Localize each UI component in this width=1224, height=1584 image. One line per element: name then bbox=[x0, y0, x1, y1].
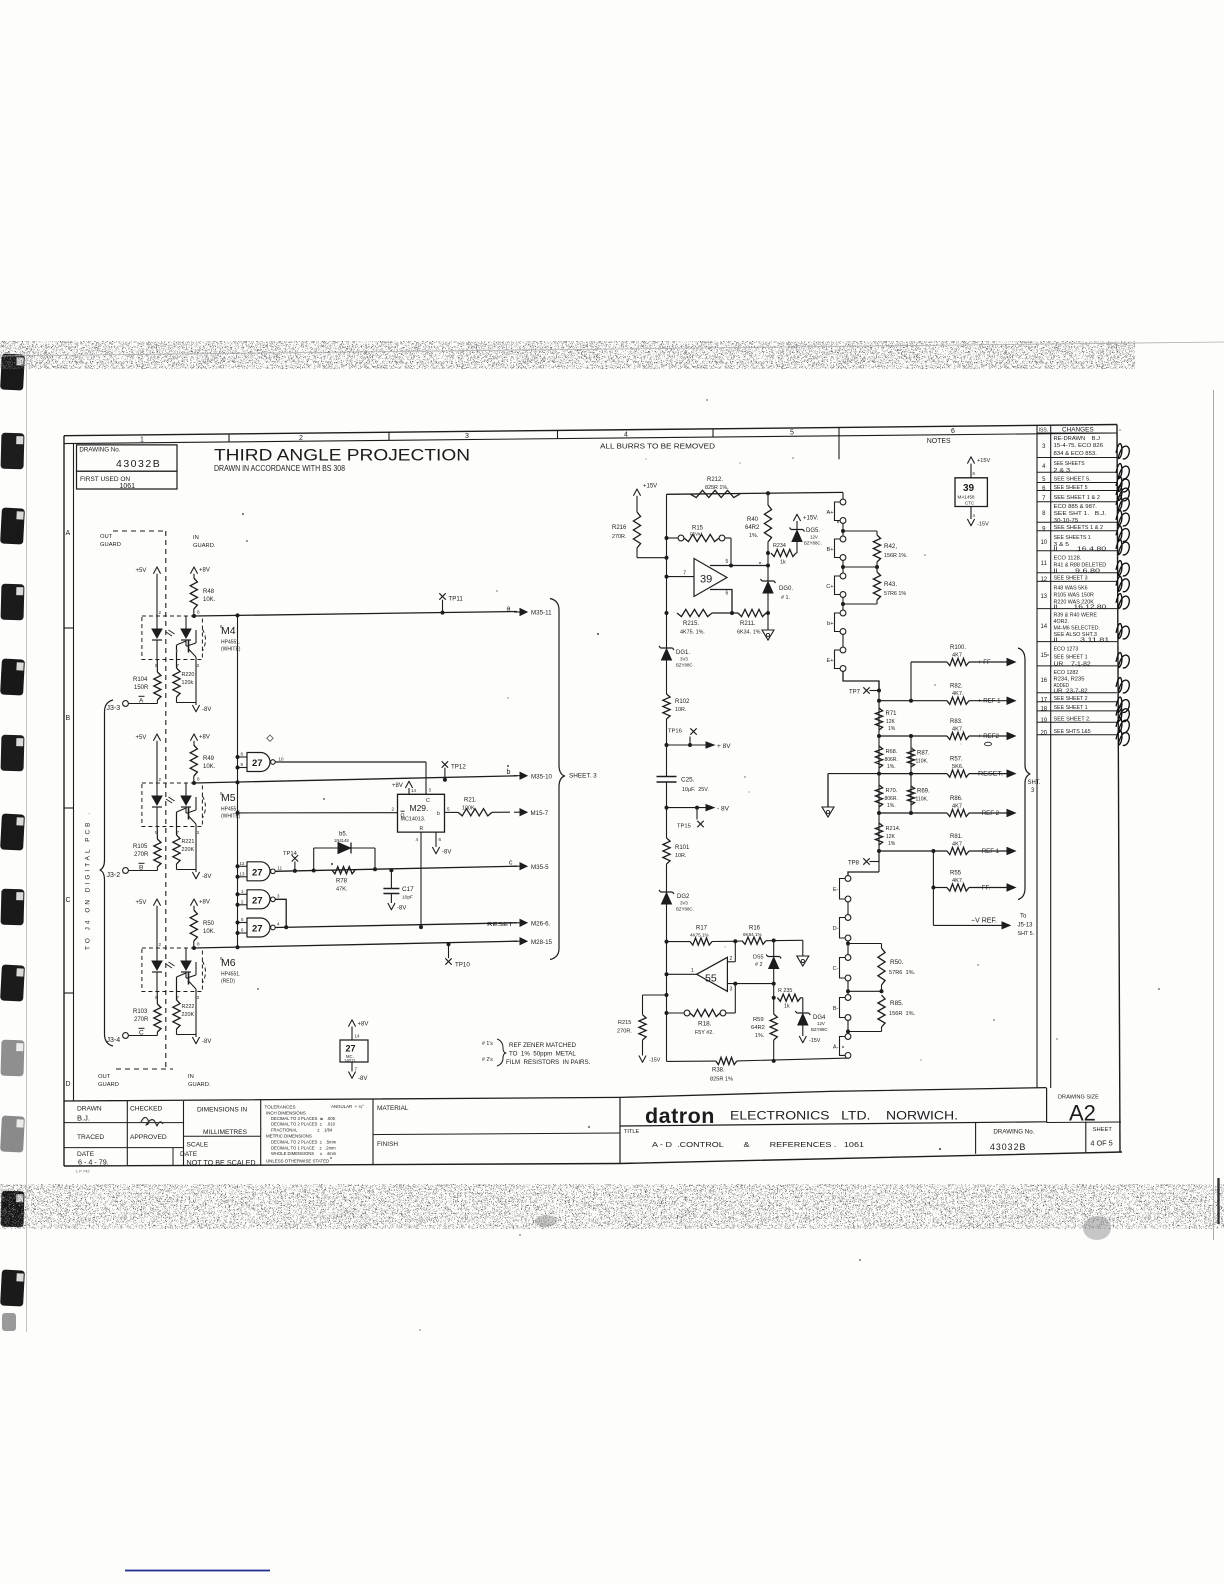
svg-text:+15V: +15V bbox=[977, 458, 990, 464]
svg-text:11: 11 bbox=[1041, 561, 1048, 567]
svg-text:SHEET. 3: SHEET. 3 bbox=[569, 773, 597, 780]
resistor R50 57R6 1% bbox=[848, 943, 882, 945]
link A+ bbox=[842, 492, 844, 499]
resistor R87 110K bbox=[907, 748, 914, 767]
resistor R70 806R 1% bbox=[875, 785, 882, 807]
M25 pin 4 reset vertical bbox=[420, 832, 422, 927]
svg-text:R68.: R68. bbox=[886, 749, 898, 755]
op-amp U39a bbox=[694, 559, 727, 597]
svg-text:5: 5 bbox=[447, 807, 450, 812]
resistor R234 1k bbox=[771, 549, 796, 556]
svg-text:SCALE: SCALE bbox=[187, 1142, 209, 1149]
svg-text:R104: R104 bbox=[133, 677, 148, 683]
svg-text:REF ZENER MATCHED: REF ZENER MATCHED bbox=[509, 1042, 576, 1049]
-8V supply M5 bbox=[176, 864, 178, 870]
phototransistor M5 bbox=[188, 808, 190, 820]
svg-text:SEE SHEET 1: SEE SHEET 1 bbox=[1054, 705, 1088, 711]
svg-text:ECO 885 & 987.: ECO 885 & 987. bbox=[1054, 504, 1097, 510]
svg-text:A-: A- bbox=[833, 1045, 839, 1051]
svg-text:6 - 4 - 79.: 6 - 4 - 79. bbox=[78, 1158, 109, 1167]
svg-text:FIRST USED ON: FIRST USED ON bbox=[80, 476, 130, 483]
bottom scan speckle band bbox=[0, 1184, 1224, 1229]
svg-text:5: 5 bbox=[726, 559, 729, 565]
svg-text:c: c bbox=[509, 860, 513, 867]
svg-text:SEE SHEET 1: SEE SHEET 1 bbox=[1054, 655, 1088, 661]
svg-text:7: 7 bbox=[683, 571, 686, 577]
svg-text:E+: E+ bbox=[827, 658, 834, 664]
wire LED cathode to R104 bbox=[156, 660, 158, 673]
svg-text:D-: D- bbox=[833, 926, 839, 932]
svg-text:14011.: 14011. bbox=[344, 1058, 357, 1063]
+5V supply M4 bbox=[153, 567, 160, 574]
reset row ground leg bbox=[827, 774, 829, 807]
svg-text:57R6 1%.: 57R6 1%. bbox=[889, 970, 916, 976]
link E- bbox=[845, 876, 851, 882]
svg-text:GUARD.: GUARD. bbox=[193, 543, 216, 549]
svg-text:F5Y #2.: F5Y #2. bbox=[695, 1030, 714, 1036]
svg-text:6: 6 bbox=[951, 428, 955, 435]
resistor R212 825R 1% bbox=[690, 490, 740, 497]
svg-text:- REF 2: - REF 2 bbox=[978, 810, 1000, 817]
svg-text:R86.: R86. bbox=[950, 796, 963, 802]
link A- bbox=[845, 1034, 851, 1040]
svg-text:DG5.: DG5. bbox=[806, 528, 820, 534]
svg-text:ELECTRONICS LTD. NORWICH.: ELECTRONICS LTD. NORWICH. bbox=[730, 1109, 958, 1123]
svg-text:b+: b+ bbox=[827, 621, 833, 627]
resistor R104 150R bbox=[154, 672, 161, 700]
svg-text:R102: R102 bbox=[675, 699, 690, 705]
svg-text:B.J.: B.J. bbox=[77, 1114, 90, 1123]
resistor R69 110K bbox=[907, 786, 914, 805]
svg-text:3: 3 bbox=[429, 788, 432, 793]
svg-text:M35-10: M35-10 bbox=[531, 773, 553, 780]
output to M28-15 bbox=[514, 940, 521, 942]
top scan speckle band bbox=[0, 341, 1135, 369]
svg-text:834 & ECO 853.: 834 & ECO 853. bbox=[1054, 451, 1097, 457]
LED inside M4 bbox=[156, 616, 158, 629]
spare gate -8V bbox=[351, 1062, 353, 1072]
svg-text:# 1.: # 1. bbox=[781, 595, 790, 601]
svg-text:220K: 220K bbox=[182, 847, 195, 853]
svg-text:J3-3: J3-3 bbox=[107, 705, 121, 712]
svg-text:DRAWING No.: DRAWING No. bbox=[993, 1129, 1034, 1136]
link B- bbox=[845, 995, 851, 1001]
svg-text:2: 2 bbox=[159, 942, 162, 947]
wire from M6 collector bbox=[192, 946, 196, 950]
svg-text:ll 16.4.80: ll 16.4.80 bbox=[1054, 547, 1107, 553]
zener DG5 12V bbox=[790, 528, 805, 532]
light arrows M5 bbox=[166, 797, 175, 803]
svg-text:BZY88C.: BZY88C. bbox=[676, 907, 694, 912]
svg-text:TP16: TP16 bbox=[668, 729, 682, 735]
svg-text:RESET: RESET bbox=[487, 922, 514, 928]
svg-text:−V REF.: −V REF. bbox=[971, 918, 997, 925]
wire a from M4 collector bbox=[192, 614, 196, 618]
svg-text:10K.: 10K. bbox=[203, 929, 216, 935]
binding holes left edge bbox=[0, 353, 25, 390]
svg-text:16: 16 bbox=[1040, 678, 1047, 684]
svg-text:12K: 12K bbox=[886, 719, 896, 725]
svg-text:4K7: 4K7 bbox=[952, 652, 962, 658]
svg-text:+ REF 1: + REF 1 bbox=[978, 698, 1001, 705]
svg-text:SEE SHEETS 1: SEE SHEETS 1 bbox=[1054, 535, 1091, 541]
op-amp pin6 wire bbox=[710, 590, 732, 614]
svg-text:TP7: TP7 bbox=[849, 690, 861, 696]
svg-text:+5V: +5V bbox=[136, 900, 147, 906]
datron row bottom line bbox=[620, 1122, 1046, 1126]
svg-text:47K.: 47K. bbox=[336, 887, 348, 893]
test point TP10 bbox=[445, 958, 451, 964]
svg-text:20: 20 bbox=[1040, 731, 1047, 737]
svg-text:39: 39 bbox=[700, 574, 712, 586]
svg-text:R103: R103 bbox=[133, 1009, 148, 1015]
+5V supply M5 bbox=[153, 734, 160, 741]
svg-text:R215.: R215. bbox=[683, 621, 699, 627]
op-amp U55 (mirrored) bbox=[697, 957, 728, 991]
svg-text:8: 8 bbox=[197, 610, 200, 615]
photodiode inside M6 bbox=[185, 948, 187, 961]
svg-text:M5: M5 bbox=[221, 792, 236, 804]
svg-text:R234: R234 bbox=[773, 543, 786, 549]
svg-text:R42,: R42, bbox=[884, 543, 897, 550]
svg-text:b: b bbox=[507, 769, 511, 776]
svg-text:10R.: 10R. bbox=[675, 707, 686, 713]
svg-text:SEE SHEET 2: SEE SHEET 2 bbox=[1054, 696, 1088, 702]
top border column ticks bbox=[228, 434, 230, 442]
svg-text:4K7: 4K7 bbox=[952, 803, 962, 809]
svg-text:SEE SHTS 1&5: SEE SHTS 1&5 bbox=[1054, 729, 1091, 735]
wire reset row bbox=[275, 923, 517, 928]
svg-text:R234, R235: R234, R235 bbox=[1054, 677, 1085, 683]
svg-text:DECIMAL TO 2 PLACES ± .5mm: DECIMAL TO 2 PLACES ± .5mm bbox=[271, 1140, 337, 1145]
bypass diode b5 1N4148 bbox=[313, 848, 315, 871]
svg-text:2: 2 bbox=[392, 807, 395, 812]
svg-text:R211.: R211. bbox=[740, 621, 756, 627]
wire LED cathode to R105 bbox=[156, 827, 158, 840]
LED inside M5 bbox=[156, 783, 158, 796]
svg-text:ll 3.11.81: ll 3.11.81 bbox=[1054, 637, 1110, 643]
svg-text:-8V: -8V bbox=[202, 707, 211, 713]
resistor R17 4K75 1% bbox=[667, 941, 691, 943]
flip-flop M29 MC14013 bbox=[398, 794, 445, 832]
svg-text:6: 6 bbox=[439, 837, 442, 842]
svg-text:C+: C+ bbox=[826, 584, 833, 590]
resistor R55 4K7. output - FF. bbox=[933, 887, 947, 889]
LED inside M6 bbox=[156, 948, 158, 961]
svg-text:10pF: 10pF bbox=[402, 895, 413, 901]
ground right of R16 bbox=[802, 940, 804, 956]
svg-text:CTC: CTC bbox=[965, 501, 974, 506]
secondary divider R87/R69 bbox=[910, 736, 912, 813]
svg-text:11: 11 bbox=[278, 866, 283, 871]
svg-text:BZY88C: BZY88C bbox=[811, 1027, 828, 1032]
test point TP8 bbox=[878, 851, 880, 872]
svg-text:R81.: R81. bbox=[950, 834, 963, 840]
wire b from M5 collector bbox=[192, 781, 196, 785]
U55 output pin1 bbox=[667, 973, 697, 975]
J4 connector brace bbox=[100, 700, 113, 1046]
svg-text:DS5: DS5 bbox=[753, 955, 764, 961]
svg-text:M35-11: M35-11 bbox=[531, 610, 552, 617]
left page edge shadow bbox=[26, 352, 28, 1332]
NAND gate G2 bbox=[247, 862, 270, 881]
wire R215 to R211 bbox=[712, 612, 738, 614]
svg-text:+5V: +5V bbox=[136, 735, 147, 741]
op-amp package 39 MA1458 bbox=[955, 478, 987, 507]
svg-text:3: 3 bbox=[197, 830, 200, 835]
blue pen line bottom bbox=[125, 1570, 270, 1572]
svg-text:ECO 1273: ECO 1273 bbox=[1054, 647, 1079, 653]
svg-text:3: 3 bbox=[730, 987, 733, 993]
svg-text:# 1's: # 1's bbox=[482, 1041, 493, 1047]
svg-text:12V: 12V bbox=[810, 535, 818, 540]
svg-text:C: C bbox=[426, 798, 430, 804]
svg-text:-15V: -15V bbox=[809, 1038, 821, 1044]
resistor R78 47K bbox=[332, 867, 355, 874]
resistor R15 select-on-test bbox=[667, 537, 679, 539]
svg-text:110K.: 110K. bbox=[916, 797, 929, 803]
resistor R101 10R bbox=[663, 838, 670, 864]
svg-text:ANGULAR + ¼°: ANGULAR + ¼° bbox=[331, 1104, 364, 1109]
svg-text:14: 14 bbox=[1040, 624, 1047, 630]
svg-text:SEE SHEETS: SEE SHEETS bbox=[1054, 461, 1086, 467]
-8V supply M6 bbox=[176, 1029, 178, 1035]
svg-text:R59: R59 bbox=[753, 1017, 764, 1023]
svg-text:- REF 1: - REF 1 bbox=[978, 848, 1000, 855]
svg-text:A2: A2 bbox=[1069, 1101, 1096, 1126]
resistor R211 6K34 1% bbox=[738, 609, 766, 616]
svg-text:R101: R101 bbox=[675, 845, 690, 851]
svg-text:TP12: TP12 bbox=[451, 764, 466, 771]
-8V tap bbox=[665, 806, 669, 810]
svg-text:To: To bbox=[1020, 914, 1027, 920]
svg-text:270R.: 270R. bbox=[612, 534, 626, 540]
riser for -FF row bbox=[932, 851, 934, 925]
svg-text:R49: R49 bbox=[203, 756, 215, 762]
svg-text:TP8: TP8 bbox=[848, 861, 860, 867]
light arrows M4 bbox=[166, 630, 175, 636]
svg-text:R82.: R82. bbox=[950, 684, 963, 690]
resistor R21 100K bbox=[458, 809, 492, 816]
svg-text:1061: 1061 bbox=[120, 483, 136, 490]
svg-text:806R.: 806R. bbox=[885, 796, 898, 802]
svg-text:R: R bbox=[420, 826, 424, 832]
svg-text:FINISH: FINISH bbox=[377, 1141, 398, 1148]
wire base node to R220 bbox=[176, 645, 178, 668]
zener DS5 #2 bbox=[773, 941, 775, 957]
+8V supply M5 bbox=[190, 734, 197, 741]
test point TP14 bbox=[292, 855, 298, 861]
svg-text:27: 27 bbox=[252, 868, 263, 879]
title block top line bbox=[64, 1088, 1046, 1101]
svg-text:6: 6 bbox=[726, 591, 729, 597]
svg-text:4OR2.: 4OR2. bbox=[1054, 619, 1070, 625]
svg-text:1%.: 1%. bbox=[887, 803, 896, 809]
svg-text:ll 9.6.80: ll 9.6.80 bbox=[1054, 569, 1101, 575]
svg-text:+8V: +8V bbox=[358, 1022, 369, 1028]
svg-text:1k: 1k bbox=[784, 1004, 790, 1010]
connector J3-2 bbox=[123, 868, 129, 874]
svg-text:-15V: -15V bbox=[649, 1058, 661, 1064]
svg-text:R221: R221 bbox=[182, 839, 195, 845]
svg-text:+ FF: + FF bbox=[978, 659, 991, 666]
zener DG1 3V3 bbox=[659, 646, 674, 650]
39 +15V pin 8 bbox=[967, 457, 974, 464]
resistor R16 6K84 1% bbox=[742, 937, 766, 944]
svg-text:C17: C17 bbox=[402, 886, 414, 893]
first used on box bbox=[77, 471, 178, 489]
svg-text:R40: R40 bbox=[747, 517, 759, 523]
svg-text:156R 1%.: 156R 1%. bbox=[889, 1011, 916, 1017]
svg-text:M4: M4 bbox=[221, 625, 236, 637]
resistor R59 64R2 1% bbox=[770, 1014, 777, 1040]
svg-text:WHOLE DIMENSIONS ± 4mm: WHOLE DIMENSIONS ± 4mm bbox=[271, 1151, 337, 1156]
page crease line top bbox=[0, 342, 1224, 356]
svg-text:METRIC DIMENSIONS: METRIC DIMENSIONS bbox=[266, 1134, 312, 1139]
svg-text:TOLERANCES: TOLERANCES bbox=[265, 1105, 296, 1110]
zener DG4 12V bbox=[795, 1011, 810, 1015]
resistor R221 220K bbox=[173, 835, 180, 864]
main reference bus bbox=[666, 494, 668, 648]
svg-text:3V3: 3V3 bbox=[680, 657, 688, 662]
svg-text:A: A bbox=[66, 530, 71, 537]
svg-text:6K84 1%: 6K84 1% bbox=[743, 932, 762, 937]
resistor R68 806R 1% bbox=[875, 746, 882, 768]
link C+ bbox=[842, 561, 844, 574]
guard dashed boundary bbox=[165, 531, 167, 1069]
resistor R83. 4K7. output + REF2 bbox=[879, 735, 947, 737]
frame inner top line bbox=[64, 433, 1117, 444]
svg-text:J3-2: J3-2 bbox=[107, 872, 121, 879]
test point TP15 bbox=[696, 808, 698, 820]
test point TP11 bbox=[439, 593, 445, 599]
svg-text:M29.: M29. bbox=[410, 803, 429, 813]
svg-text:2: 2 bbox=[730, 956, 733, 962]
connector J3-3 bbox=[123, 701, 129, 707]
svg-text:APPROVED: APPROVED bbox=[130, 1134, 167, 1141]
svg-text:220K: 220K bbox=[182, 1012, 195, 1018]
NAND gate G1 bbox=[247, 753, 270, 772]
resistor R216 270R bbox=[633, 512, 640, 548]
svg-text:R222: R222 bbox=[182, 1004, 195, 1010]
-8V supply M4 bbox=[176, 697, 178, 703]
link b+ bbox=[842, 598, 844, 611]
connector J3-4 bbox=[123, 1033, 129, 1039]
svg-text:Q: Q bbox=[401, 813, 405, 819]
svg-text:THIRD ANGLE PROJECTION: THIRD ANGLE PROJECTION bbox=[214, 445, 470, 464]
svg-text:4K7.: 4K7. bbox=[952, 691, 964, 697]
svg-text:270R: 270R bbox=[134, 852, 149, 858]
svg-text:+5V: +5V bbox=[136, 568, 147, 574]
svg-text:E-: E- bbox=[833, 887, 839, 893]
opto-isolator M4 (WHITE) dashed outline bbox=[142, 616, 203, 660]
resistor R235 1k bbox=[777, 994, 800, 1001]
svg-text:IN: IN bbox=[193, 535, 199, 541]
svg-text:DECIMAL TO 2 PLACES ± .010: DECIMAL TO 2 PLACES ± .010 bbox=[271, 1122, 336, 1127]
wire LED cathode to R103 bbox=[156, 992, 158, 1005]
svg-text:R43.: R43. bbox=[884, 581, 897, 588]
svg-text:IN: IN bbox=[188, 1074, 194, 1080]
svg-text:DRAWN IN ACCORDANCE WITH BS 30: DRAWN IN ACCORDANCE WITH BS 308 bbox=[214, 464, 345, 473]
svg-text:12: 12 bbox=[240, 861, 245, 866]
wire G3 output down bbox=[275, 899, 286, 927]
left gate bus vertical bbox=[237, 615, 239, 947]
svg-text:HP4551.: HP4551. bbox=[221, 972, 240, 978]
svg-text:(RED): (RED) bbox=[221, 979, 235, 985]
bottom smudge bbox=[535, 1215, 557, 1227]
svg-text:R215: R215 bbox=[618, 1020, 631, 1026]
svg-text:GUARD: GUARD bbox=[98, 1082, 119, 1088]
resistor R215 4K75 1% bbox=[677, 609, 712, 616]
svg-text:B: B bbox=[66, 715, 71, 722]
svg-text:UR 23-7-82: UR 23-7-82 bbox=[1054, 688, 1088, 694]
op-amp input wire pin7 bbox=[667, 576, 695, 578]
svg-text:4K7.: 4K7. bbox=[952, 878, 964, 884]
svg-text:datron: datron bbox=[645, 1104, 715, 1128]
svg-text:C-: C- bbox=[833, 966, 839, 972]
svg-text:10: 10 bbox=[1040, 540, 1047, 546]
svg-text:27: 27 bbox=[252, 924, 263, 935]
svg-text:B: B bbox=[139, 865, 143, 872]
link C- bbox=[845, 955, 851, 961]
wire top row to links bbox=[667, 492, 844, 494]
svg-text:ISS.: ISS. bbox=[1039, 428, 1049, 434]
output to M15-7 bbox=[514, 811, 521, 813]
svg-text:3: 3 bbox=[197, 663, 200, 668]
svg-text:INCH DIMENSIONS: INCH DIMENSIONS bbox=[266, 1110, 306, 1115]
svg-text:SHT 5.: SHT 5. bbox=[1018, 931, 1035, 937]
resistor R82. 4K7. output + REF 1 bbox=[879, 700, 947, 702]
svg-text:R 235: R 235 bbox=[778, 988, 792, 994]
svg-text:3V3: 3V3 bbox=[680, 901, 688, 906]
svg-text:FRACTIONAL ±: FRACTIONAL ± 1/64 bbox=[271, 1127, 333, 1132]
svg-text:R100.: R100. bbox=[950, 645, 966, 651]
svg-text:UNLESS OTHERWISE STATED: UNLESS OTHERWISE STATED bbox=[266, 1159, 329, 1164]
svg-text:270R.: 270R. bbox=[617, 1029, 632, 1035]
capacitor C25 10uF 25V bbox=[657, 776, 677, 778]
svg-text:8: 8 bbox=[197, 777, 200, 782]
title block dividers bbox=[126, 1101, 128, 1165]
svg-text:C25.: C25. bbox=[681, 777, 695, 784]
drawing frame outer border bbox=[64, 425, 1117, 436]
revision table frame bbox=[1036, 426, 1038, 1089]
NAND gate G3 bbox=[247, 890, 270, 909]
svg-text:R69.: R69. bbox=[917, 789, 930, 795]
svg-text:+15V.: +15V. bbox=[803, 516, 819, 522]
zener DG2 3V3 bbox=[659, 890, 674, 894]
svg-text:MILLIMETRES: MILLIMETRES bbox=[203, 1129, 248, 1136]
svg-text:1%: 1% bbox=[888, 841, 896, 847]
svg-text:10µF. 25V.: 10µF. 25V. bbox=[682, 787, 709, 793]
svg-text:+ 8V: + 8V bbox=[717, 743, 731, 750]
svg-text:MA1458: MA1458 bbox=[958, 495, 976, 500]
left border row ticks bbox=[64, 627, 74, 629]
scan dirt specks bbox=[792, 457, 793, 458]
svg-text:SEE SHEET 5: SEE SHEET 5 bbox=[1054, 485, 1088, 491]
svg-text:30-10-75: 30-10-75 bbox=[1054, 518, 1079, 524]
svg-text:8: 8 bbox=[197, 942, 200, 947]
svg-text:4K7.: 4K7. bbox=[952, 726, 964, 732]
svg-text:110K.: 110K. bbox=[916, 759, 929, 765]
svg-text:D: D bbox=[66, 1081, 71, 1088]
wire base node to R221 bbox=[176, 812, 178, 835]
svg-text:R17: R17 bbox=[696, 926, 708, 932]
svg-text:825R 1%: 825R 1% bbox=[710, 1077, 733, 1083]
resistor R215b 270R bbox=[643, 994, 667, 996]
svg-text:R216: R216 bbox=[612, 525, 627, 531]
svg-text:-15V: -15V bbox=[977, 522, 989, 528]
svg-text:6K34. 1%.: 6K34. 1%. bbox=[737, 630, 762, 636]
